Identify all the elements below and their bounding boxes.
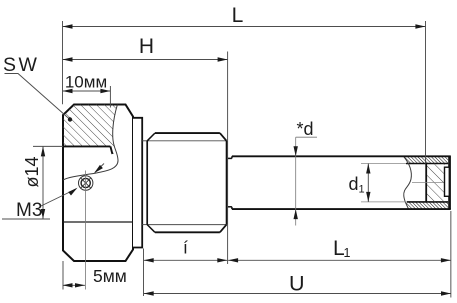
svg-text:í: í [183,238,188,258]
svg-text:10мм: 10мм [65,73,107,92]
M3 leader [41,189,76,206]
white area left of tube break [396,156,411,209]
axis centerline in section [412,182,447,184]
extension line flange face bottom [143,249,145,297]
svg-text:5мм: 5мм [93,266,127,286]
dimension H [63,59,228,61]
svg-text:SW: SW [3,54,39,76]
extension line bore end (10mm) [109,86,111,108]
M3 screw cross [80,178,91,189]
screw centerline [85,171,87,290]
thread end chamfers [220,133,227,141]
svg-text:M3: M3 [16,200,42,221]
broken-out section spline [63,105,118,181]
svg-text:L: L [232,4,244,27]
tube start steps [231,156,233,158]
M3 set screw circles [79,176,93,190]
tube outline bottom [232,208,451,210]
svg-text:ø14: ø14 [22,156,42,187]
thread crest lines [155,132,220,134]
svg-text:d: d [349,174,359,194]
tube wall hatch top [404,156,448,163]
plug left face / well bottom [425,164,427,202]
hex section hatch [63,105,117,155]
bore end wall [110,146,112,154]
svg-text:1: 1 [359,184,365,196]
flange [133,118,142,248]
svg-text:H: H [139,35,154,58]
svg-text:*d: *d [297,119,314,139]
dimension d1 extensions [361,163,406,165]
inner bore lines [406,163,448,165]
dimension U [144,293,451,295]
dimension *d [295,137,297,225]
SW leader [5,74,71,120]
extension line hex left bottom (5mm) [62,261,64,290]
thread minor diameter lines [147,140,226,142]
svg-text:1: 1 [344,246,351,260]
plug hatch [426,164,444,202]
extension line hex left [62,21,64,104]
thread relief groove [142,140,147,142]
dimension d1 [367,164,369,202]
extension line tube end bottom [450,211,452,298]
dimension 5mm [63,284,86,286]
thread end face [226,141,228,225]
sensor sleeve at tip [445,167,450,196]
thread run-out diagonals [147,133,155,141]
hex head outline [63,105,133,262]
dimension 10mm [63,90,111,92]
tube end face [448,156,451,209]
dimension i (thread length) [144,259,228,261]
tube wall hatch bottom [404,202,448,209]
neck [227,157,232,159]
extension line thread end [227,52,229,265]
dimension L1 [228,259,451,261]
tube outline top [232,155,451,157]
threaded bore line ø14 [63,145,110,147]
extension line well inner bottom [425,21,427,164]
dimension ø14 [33,145,63,147]
tube break spline [404,156,412,209]
dimension L [63,26,426,28]
svg-text:U: U [289,272,305,296]
thread start face [146,141,148,225]
hex lower face line [63,221,133,223]
screw pointer arrow [95,164,104,173]
